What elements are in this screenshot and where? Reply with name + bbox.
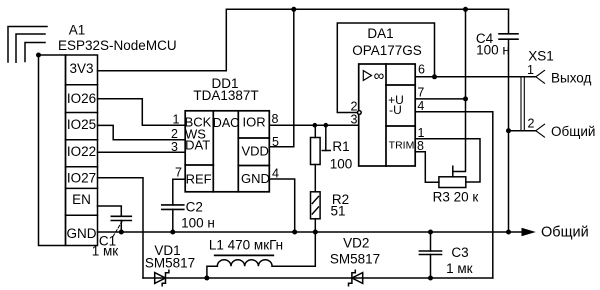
pin 2 inversion bubble: [357, 111, 361, 115]
svg-text:SM5817: SM5817: [145, 256, 195, 271]
antenna of A1: [8, 27, 47, 63]
node R1 wiper junction: [324, 123, 329, 128]
svg-text:100 н: 100 н: [476, 43, 510, 58]
wire 3V3 to top rail: [98, 9, 509, 70]
capacitor C1: [111, 216, 131, 236]
wire IOR pin8 to op-amp pin3: [269, 124, 358, 126]
capacitor C3: [419, 232, 441, 278]
svg-text:100: 100: [330, 156, 353, 171]
wire IO27 to charge pump: [98, 178, 144, 278]
wire feedback pin6 to pin2: [337, 23, 434, 113]
svg-text:2: 2: [528, 117, 535, 131]
wire IO26 to BCK: [98, 99, 186, 126]
svg-text:SM5817: SM5817: [330, 251, 380, 266]
svg-text:8: 8: [417, 139, 424, 153]
svg-text:4: 4: [417, 99, 424, 113]
connector XS1: [521, 70, 545, 137]
svg-text:IO27: IO27: [67, 171, 96, 186]
svg-text:6: 6: [418, 63, 425, 77]
wire -U pin4 to negative rail: [415, 112, 493, 278]
node C4/common junction: [506, 230, 511, 235]
svg-text:1: 1: [527, 63, 534, 77]
svg-text:GND: GND: [241, 171, 270, 186]
svg-text:IO22: IO22: [67, 144, 96, 159]
svg-text:DAC: DAC: [213, 116, 239, 130]
svg-text:DA1: DA1: [367, 26, 393, 41]
wire XS1 pin2 to common: [509, 130, 536, 132]
svg-text:1 мк: 1 мк: [446, 261, 473, 276]
op-amp DA1 OPA177GS: [359, 64, 416, 166]
node R1 top junction: [313, 123, 318, 128]
capacitor C2: [162, 205, 184, 232]
diode VD2 SM5817: [349, 270, 363, 286]
node C3/common junction: [428, 230, 433, 235]
node L1 tap junction: [204, 276, 209, 281]
svg-text:R1: R1: [332, 139, 349, 154]
wire TRIM pin8 to R3: [415, 152, 439, 183]
node R2/L1/common junction: [313, 230, 318, 235]
svg-text:L1 470 мкГн: L1 470 мкГн: [209, 238, 283, 253]
svg-text:IOR: IOR: [243, 114, 266, 129]
node 3V3/VDD junction: [291, 7, 296, 12]
op-amp triangle symbol: [363, 71, 371, 81]
wire output pin6 to XS1 pin1: [415, 76, 536, 78]
node DD1 GND/common junction: [292, 230, 297, 235]
svg-text:1: 1: [418, 126, 425, 140]
svg-text:2: 2: [351, 100, 358, 114]
svg-text:Выход: Выход: [551, 70, 592, 85]
svg-text:R3 20 к: R3 20 к: [433, 190, 479, 205]
wire TRIM pin1 to R3: [415, 139, 480, 182]
svg-text:TDA1387T: TDA1387T: [193, 88, 258, 103]
svg-text:ESP32S-NodeMCU: ESP32S-NodeMCU: [58, 38, 177, 53]
wire +U pin7: [415, 98, 465, 100]
node C2/common junction: [170, 230, 175, 235]
wire negative rail: [143, 277, 493, 279]
resistor R2: [311, 192, 321, 232]
svg-text:XS1: XS1: [528, 49, 554, 64]
svg-text:C2: C2: [186, 200, 203, 215]
svg-text:EN: EN: [72, 192, 91, 207]
svg-text:VDD: VDD: [241, 143, 268, 158]
node C1/common junction: [119, 230, 124, 235]
svg-text:3V3: 3V3: [69, 61, 93, 76]
svg-text:8: 8: [272, 112, 279, 126]
svg-text:2: 2: [171, 127, 178, 141]
wire GND pin4 drop: [269, 179, 294, 232]
wire REF pin7 to C2: [173, 179, 185, 205]
svg-text:C3: C3: [451, 245, 468, 260]
svg-text:5: 5: [272, 135, 279, 149]
wire VDD pin5 riser: [269, 9, 294, 147]
node feedback junction: [432, 74, 437, 79]
wire common rail: [98, 231, 523, 233]
svg-text:1: 1: [173, 113, 180, 127]
svg-text:GND: GND: [67, 226, 97, 241]
svg-text:REF: REF: [186, 172, 212, 187]
wire EN to C1: [98, 206, 122, 216]
inductor L1 470uH: [207, 232, 315, 278]
svg-text:7: 7: [175, 166, 182, 180]
svg-text:4: 4: [272, 167, 279, 181]
resistor R3 20k trimmer: [439, 166, 466, 187]
node antenna feed dot: [36, 53, 41, 58]
svg-text:100 н: 100 н: [181, 215, 215, 230]
node +U junction: [463, 96, 468, 101]
svg-text:Общий: Общий: [551, 124, 595, 139]
wire +U riser to R3 wiper: [453, 9, 466, 171]
svg-text:7: 7: [417, 86, 424, 100]
svg-text:-U: -U: [389, 103, 402, 117]
svg-text:3: 3: [351, 113, 358, 127]
node C4/XS1 pin2 junction: [506, 128, 511, 133]
svg-text:∞: ∞: [374, 67, 385, 84]
IC DD1 TDA1387T: [185, 111, 269, 192]
node 3V3/+U junction: [463, 7, 468, 12]
svg-text:IO26: IO26: [67, 91, 96, 106]
module A1 ESP32S-NodeMCU: [39, 55, 98, 246]
common rail arrow: [522, 228, 536, 237]
svg-text:OPA177GS: OPA177GS: [352, 43, 422, 58]
wire IO22 to DAT: [98, 151, 186, 153]
resistor R1 (trimmer): [311, 125, 331, 192]
node C3/negative rail junction: [428, 276, 433, 281]
svg-text:Общий: Общий: [541, 225, 589, 241]
diode VD1 SM5817: [155, 270, 169, 286]
svg-text:VD2: VD2: [343, 236, 369, 251]
svg-text:IO25: IO25: [67, 117, 96, 132]
svg-text:1 мк: 1 мк: [92, 243, 119, 258]
svg-text:3: 3: [171, 140, 178, 154]
svg-text:A1: A1: [69, 23, 86, 38]
svg-text:DAT: DAT: [185, 137, 210, 152]
svg-text:TRIM: TRIM: [389, 140, 415, 152]
wire IO25 to WS: [98, 125, 186, 139]
capacitor C4: [499, 9, 518, 232]
svg-text:51: 51: [330, 204, 345, 219]
